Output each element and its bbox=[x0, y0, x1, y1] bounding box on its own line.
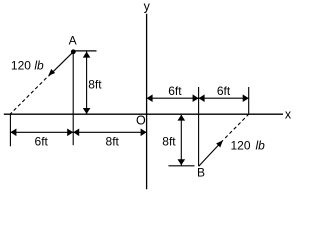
svg-text:120: 120 bbox=[231, 139, 251, 153]
svg-text:A: A bbox=[69, 34, 77, 48]
svg-text:8ft: 8ft bbox=[106, 135, 120, 149]
svg-text:8ft: 8ft bbox=[162, 135, 176, 149]
svg-text:6ft: 6ft bbox=[217, 84, 231, 98]
svg-text:6ft: 6ft bbox=[35, 135, 49, 149]
svg-text:lb: lb bbox=[256, 139, 266, 153]
svg-text:120: 120 bbox=[11, 59, 31, 73]
svg-text:y: y bbox=[144, 0, 151, 13]
svg-text:lb: lb bbox=[34, 59, 44, 73]
svg-text:O: O bbox=[136, 114, 146, 128]
svg-text:B: B bbox=[197, 166, 205, 180]
svg-text:6ft: 6ft bbox=[168, 84, 182, 98]
svg-text:x: x bbox=[285, 108, 292, 122]
svg-text:8ft: 8ft bbox=[88, 77, 102, 91]
